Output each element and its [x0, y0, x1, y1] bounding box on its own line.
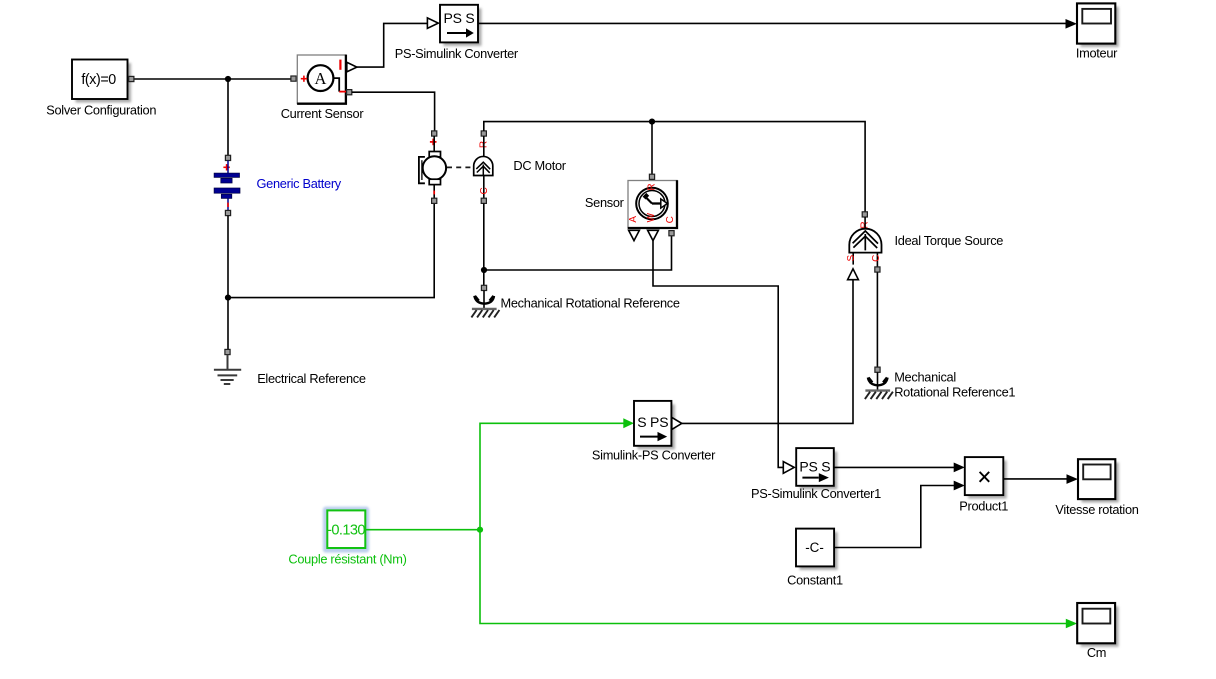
ps-simulink converter input triangle [427, 18, 438, 28]
node junction battery top [225, 76, 231, 82]
current sensor bottom right port [347, 90, 352, 95]
dc motor armature symbol [419, 136, 446, 198]
dc motor dashed link [447, 166, 473, 168]
ideal torque source C port [875, 267, 880, 272]
arrowhead green into simulink-ps converter [623, 418, 634, 428]
ideal torque source S input triangle [848, 269, 859, 280]
svg-text:Cm: Cm [1087, 645, 1106, 660]
scope Cm shadow [1081, 607, 1119, 647]
battery Generic Battery symbol [214, 161, 240, 211]
svg-text:f(x)=0: f(x)=0 [81, 72, 116, 88]
solver configuration block [72, 60, 128, 100]
node junction sensor top [649, 119, 655, 125]
svg-text:A: A [315, 69, 327, 88]
current sensor output triangle [347, 62, 357, 72]
wire green junction up to simulink-ps converter [480, 423, 624, 529]
solver configuration block shadow [76, 63, 132, 103]
dc motor minus mark [433, 191, 435, 195]
svg-text:PS-Simulink Converter1: PS-Simulink Converter1 [751, 486, 881, 501]
dc motor electrical bottom port [432, 198, 437, 203]
constant1 shadow [800, 532, 838, 570]
wire battery to ground [227, 216, 229, 350]
svg-text:Vitesse rotation: Vitesse rotation [1055, 502, 1138, 517]
svg-text:PS-Simulink Converter: PS-Simulink Converter [395, 46, 519, 61]
wire ps-simulink converter1 to product1 [834, 466, 954, 468]
node junction ground [225, 295, 231, 301]
arrowhead into product1 second input [954, 481, 965, 491]
current sensor left port [291, 76, 296, 81]
arrowhead green into Cm scope [1066, 619, 1077, 629]
svg-text:Imoteur: Imoteur [1076, 45, 1118, 60]
sensor W output triangle [648, 230, 659, 240]
constant block Couple resistant [327, 510, 365, 548]
svg-text:S PS: S PS [637, 414, 668, 430]
arrowhead into Imoteur [1066, 19, 1078, 29]
svg-text:Couple résistant (Nm): Couple résistant (Nm) [288, 552, 406, 567]
battery plus mark [223, 164, 229, 170]
current sensor I mark [339, 60, 341, 70]
ground mechanical rotational reference1 symbol [865, 372, 893, 399]
ps-simulink converter block [440, 5, 478, 43]
wire product1 to vitesse rotation scope [1003, 478, 1067, 480]
ps-simulink converter shadow [444, 8, 482, 46]
scope vitesse rotation shadow [1082, 463, 1119, 503]
wire torque source C to rotational reference1 [876, 272, 878, 367]
solver configuration right port [129, 76, 134, 81]
dc motor rotational top port [481, 131, 486, 136]
dc motor plus mark [430, 139, 437, 146]
electrical reference port [225, 349, 230, 354]
svg-text:-C-: -C- [805, 540, 824, 555]
svg-text:A: A [628, 216, 639, 223]
sensor block [628, 180, 677, 228]
sensor top port [649, 174, 654, 179]
svg-text:PS S: PS S [799, 458, 830, 474]
wire solver to current sensor [135, 78, 292, 80]
svg-text:Current Sensor: Current Sensor [281, 106, 365, 121]
svg-text:R: R [646, 183, 657, 190]
product1 shadow [968, 461, 1007, 499]
scope vitesse rotation [1078, 459, 1115, 499]
svg-text:W: W [646, 212, 657, 222]
wire ps-simulink converter to Imoteur scope [478, 22, 1066, 24]
scope Cm [1077, 603, 1115, 643]
wire junction to dc motor negative [228, 203, 434, 297]
battery top port [225, 155, 230, 160]
current sensor red stub [339, 91, 346, 93]
svg-text:DC Motor: DC Motor [513, 158, 566, 173]
simulink-ps converter block [634, 401, 671, 446]
scope Imoteur shadow [1081, 7, 1119, 47]
simulink-ps converter output triangle [672, 417, 682, 429]
ideal torque source bell symbol [849, 217, 881, 267]
wire dc motor rotational bottom down [483, 203, 485, 285]
svg-text:Sensor: Sensor [585, 195, 625, 210]
wire junction down to sensor [651, 122, 653, 175]
svg-text:Mechanical Rotational Referenc: Mechanical Rotational Reference [501, 295, 680, 310]
ps-simulink converter1 block [796, 448, 834, 486]
sensor C port [669, 231, 674, 236]
svg-text:Electrical Reference: Electrical Reference [257, 371, 366, 386]
node green junction [477, 527, 483, 533]
product1 block [965, 457, 1004, 495]
battery bottom port [225, 210, 230, 215]
wire green constant to junction [366, 529, 480, 531]
wire sensor W down right and to ps-simulink converter1 [653, 241, 783, 468]
svg-text:C: C [665, 216, 676, 223]
svg-text:Rotational Reference1: Rotational Reference1 [894, 385, 1015, 400]
arrowhead into vitesse rotation [1067, 474, 1079, 484]
mechanical rotational reference port [481, 285, 486, 290]
wire junction down to battery [227, 79, 229, 155]
dc motor rotational bell symbol [474, 136, 493, 198]
svg-text:C: C [871, 255, 882, 262]
svg-text:Simulink-PS Converter: Simulink-PS Converter [592, 447, 716, 462]
current sensor plus mark [301, 76, 307, 82]
svg-text:Mechanical: Mechanical [894, 370, 956, 385]
ps-simulink converter1 shadow [800, 452, 838, 490]
ps-simulink converter1 input triangle [783, 462, 794, 474]
arrowhead into product1 first input [954, 463, 965, 473]
svg-text:C: C [479, 187, 490, 194]
constant1 block [796, 529, 834, 567]
svg-text:PS S: PS S [443, 10, 474, 26]
svg-text:Solver Configuration: Solver Configuration [46, 103, 156, 118]
wire dc motor rotational up and across to torque source [484, 122, 865, 212]
couple resistant selection halo [323, 507, 369, 553]
svg-text:S: S [846, 255, 857, 262]
wire current sensor to ps-simulink converter [357, 23, 428, 67]
simulink-ps converter shadow [638, 404, 675, 449]
wire constant1 to product1 [834, 486, 954, 548]
scope Imoteur [1077, 3, 1115, 43]
mechanical rotational reference1 port [875, 367, 880, 372]
sensor A output triangle [629, 230, 640, 240]
wire sensor C port to junction [484, 236, 672, 270]
battery minus mark [227, 203, 229, 207]
svg-text:Generic Battery: Generic Battery [257, 176, 342, 191]
current sensor block [297, 55, 346, 104]
wire green junction down to Cm scope [480, 530, 1066, 624]
svg-text:Constant1: Constant1 [787, 572, 843, 587]
svg-text:Product1: Product1 [959, 498, 1008, 513]
wire current sensor bottom to dc motor plus [352, 92, 435, 131]
node junction rotational reference [481, 267, 487, 273]
ground mechanical rotational reference symbol [471, 291, 499, 318]
svg-text:Ideal Torque Source: Ideal Torque Source [895, 233, 1004, 248]
ideal torque source top port [862, 212, 867, 217]
ground electrical reference symbol [214, 355, 241, 384]
dc motor rotational bottom port [481, 198, 486, 203]
wire simulink-ps converter to torque source S [682, 280, 853, 424]
svg-text:-0.130: -0.130 [327, 523, 365, 539]
dc motor electrical top port [432, 131, 437, 136]
